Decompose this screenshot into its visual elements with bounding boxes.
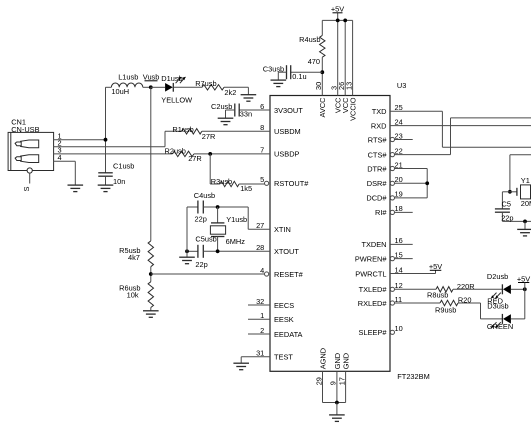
svg-text:PWRCTL: PWRCTL bbox=[355, 269, 386, 278]
svg-text:CTS#: CTS# bbox=[368, 150, 388, 159]
svg-text:18: 18 bbox=[395, 204, 403, 213]
svg-text:VCCIO: VCCIO bbox=[349, 97, 358, 121]
svg-text:R1usb: R1usb bbox=[172, 125, 193, 134]
svg-text:EESK: EESK bbox=[274, 315, 294, 324]
svg-text:USBDP: USBDP bbox=[274, 150, 300, 159]
svg-text:+5V: +5V bbox=[331, 5, 344, 14]
svg-text:C5: C5 bbox=[502, 200, 511, 209]
svg-text:6: 6 bbox=[260, 102, 264, 111]
svg-text:27R: 27R bbox=[188, 154, 202, 163]
svg-text:9: 9 bbox=[329, 381, 338, 385]
svg-text:RXLED#: RXLED# bbox=[358, 299, 388, 308]
svg-text:S: S bbox=[22, 187, 31, 192]
svg-text:4k7: 4k7 bbox=[128, 253, 140, 262]
svg-text:7: 7 bbox=[260, 146, 264, 155]
svg-text:28: 28 bbox=[256, 243, 264, 252]
svg-text:XTOUT: XTOUT bbox=[274, 247, 299, 256]
svg-text:Y1: Y1 bbox=[521, 176, 530, 185]
svg-text:10uH: 10uH bbox=[111, 87, 129, 96]
svg-text:AVCC: AVCC bbox=[318, 97, 327, 118]
svg-text:GND: GND bbox=[342, 353, 351, 369]
svg-text:D1usb: D1usb bbox=[161, 74, 182, 83]
svg-text:27: 27 bbox=[256, 221, 264, 230]
svg-text:R3usb: R3usb bbox=[211, 177, 232, 186]
svg-text:RSTOUT#: RSTOUT# bbox=[274, 179, 309, 188]
svg-text:33n: 33n bbox=[240, 109, 252, 118]
svg-text:19: 19 bbox=[395, 190, 403, 199]
svg-text:Y1usb: Y1usb bbox=[226, 215, 247, 224]
svg-text:R9usb: R9usb bbox=[435, 305, 456, 314]
svg-text:RTS#: RTS# bbox=[368, 135, 388, 144]
svg-text:10: 10 bbox=[395, 324, 403, 333]
svg-text:EEDATA: EEDATA bbox=[274, 330, 303, 339]
svg-text:13: 13 bbox=[344, 82, 353, 90]
svg-text:8: 8 bbox=[260, 123, 264, 132]
svg-text:22: 22 bbox=[395, 146, 403, 155]
svg-text:C3usb: C3usb bbox=[263, 65, 284, 74]
svg-text:10n: 10n bbox=[113, 177, 125, 186]
svg-text:FT232BM: FT232BM bbox=[397, 372, 429, 381]
svg-text:23: 23 bbox=[395, 131, 403, 140]
svg-text:20: 20 bbox=[395, 175, 403, 184]
svg-text:5: 5 bbox=[260, 175, 264, 184]
svg-text:22p: 22p bbox=[195, 260, 207, 269]
svg-text:GND: GND bbox=[333, 353, 342, 369]
svg-text:14: 14 bbox=[395, 265, 403, 274]
svg-text:2k2: 2k2 bbox=[224, 88, 236, 97]
svg-text:DTR#: DTR# bbox=[367, 164, 387, 173]
svg-text:470: 470 bbox=[308, 57, 320, 66]
svg-text:21: 21 bbox=[395, 160, 403, 169]
svg-text:220R: 220R bbox=[457, 282, 475, 291]
svg-text:EECS: EECS bbox=[274, 301, 294, 310]
svg-text:4: 4 bbox=[58, 153, 62, 162]
svg-text:D3usb: D3usb bbox=[487, 302, 508, 311]
svg-text:C1usb: C1usb bbox=[113, 161, 134, 170]
svg-text:D2usb: D2usb bbox=[487, 272, 508, 281]
svg-text:29: 29 bbox=[314, 377, 323, 385]
svg-text:R8usb: R8usb bbox=[427, 291, 448, 300]
svg-text:R7usb: R7usb bbox=[195, 79, 216, 88]
svg-text:RESET#: RESET# bbox=[274, 270, 304, 279]
svg-text:+5V: +5V bbox=[429, 262, 442, 271]
svg-text:R2usb: R2usb bbox=[165, 147, 186, 156]
svg-text:C2usb: C2usb bbox=[211, 102, 232, 111]
svg-text:16: 16 bbox=[395, 236, 403, 245]
svg-text:L1usb: L1usb bbox=[118, 73, 138, 82]
svg-text:15: 15 bbox=[395, 250, 403, 259]
svg-text:27R: 27R bbox=[202, 132, 216, 141]
svg-text:1: 1 bbox=[260, 311, 264, 320]
svg-text:RXD: RXD bbox=[371, 121, 387, 130]
svg-text:R4usb: R4usb bbox=[299, 35, 320, 44]
svg-text:TXLED#: TXLED# bbox=[359, 285, 388, 294]
svg-text:C5usb: C5usb bbox=[195, 235, 216, 244]
svg-text:YELLOW: YELLOW bbox=[161, 96, 192, 105]
svg-text:17: 17 bbox=[337, 377, 346, 385]
svg-text:32: 32 bbox=[256, 297, 264, 306]
svg-text:R20: R20 bbox=[458, 296, 472, 305]
svg-text:30: 30 bbox=[314, 82, 323, 90]
svg-text:3V3OUT: 3V3OUT bbox=[274, 106, 303, 115]
svg-text:SLEEP#: SLEEP# bbox=[359, 328, 388, 337]
svg-text:25: 25 bbox=[395, 103, 403, 112]
svg-text:6MHz: 6MHz bbox=[226, 237, 246, 246]
svg-text:2: 2 bbox=[260, 326, 264, 335]
svg-text:AGND: AGND bbox=[318, 348, 327, 369]
svg-text:CN-USB: CN-USB bbox=[11, 125, 39, 134]
svg-text:11: 11 bbox=[395, 295, 403, 304]
svg-text:PWREN#: PWREN# bbox=[355, 254, 388, 263]
svg-text:20M: 20M bbox=[521, 199, 531, 208]
svg-text:DCD#: DCD# bbox=[366, 194, 387, 203]
svg-text:USBDM: USBDM bbox=[274, 127, 301, 136]
svg-text:0.1u: 0.1u bbox=[292, 72, 306, 81]
svg-text:TEST: TEST bbox=[274, 353, 293, 362]
svg-text:XTIN: XTIN bbox=[274, 225, 291, 234]
svg-text:12: 12 bbox=[395, 281, 403, 290]
svg-text:TXD: TXD bbox=[372, 107, 387, 116]
svg-text:RI#: RI# bbox=[375, 208, 387, 217]
svg-text:C4usb: C4usb bbox=[194, 191, 215, 200]
svg-text:TXDEN: TXDEN bbox=[361, 240, 386, 249]
svg-text:4: 4 bbox=[260, 266, 264, 275]
svg-text:1k5: 1k5 bbox=[240, 184, 252, 193]
svg-text:24: 24 bbox=[395, 117, 403, 126]
svg-text:22p: 22p bbox=[501, 213, 513, 222]
svg-text:DSR#: DSR# bbox=[367, 179, 388, 188]
svg-text:U3: U3 bbox=[397, 81, 406, 90]
svg-text:10k: 10k bbox=[127, 290, 139, 299]
svg-text:31: 31 bbox=[256, 349, 264, 358]
svg-text:22p: 22p bbox=[195, 215, 207, 224]
